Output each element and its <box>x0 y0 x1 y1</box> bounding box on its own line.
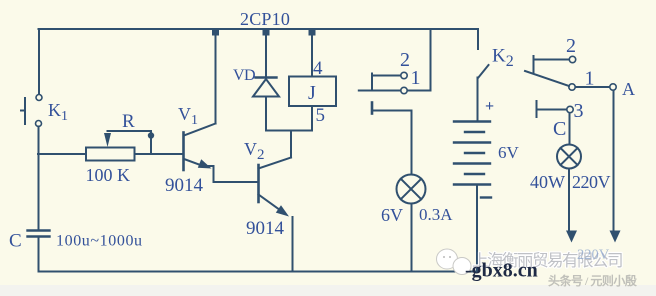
svg-text:-gbx8.cn: -gbx8.cn <box>465 260 538 282</box>
svg-text:5: 5 <box>316 105 326 126</box>
svg-text:6V: 6V <box>381 205 403 225</box>
svg-text:0.3A: 0.3A <box>419 205 453 224</box>
svg-text:2: 2 <box>400 49 410 71</box>
svg-text:9014: 9014 <box>246 218 285 239</box>
svg-text:J: J <box>308 82 316 104</box>
svg-text:A: A <box>622 79 635 99</box>
svg-text:220V: 220V <box>572 172 611 192</box>
svg-text:头条号 / 元则小殷: 头条号 / 元则小殷 <box>548 273 638 288</box>
svg-text:100 K: 100 K <box>86 165 131 185</box>
svg-text:100u~1000u: 100u~1000u <box>56 233 143 250</box>
svg-text:2CP10: 2CP10 <box>240 9 290 29</box>
svg-text:C: C <box>9 231 22 252</box>
svg-text:+: + <box>485 98 494 115</box>
svg-text:1: 1 <box>411 67 421 89</box>
svg-text:9014: 9014 <box>165 175 204 196</box>
svg-text:220V: 220V <box>577 247 610 263</box>
svg-text:40W: 40W <box>530 172 565 192</box>
svg-text:3: 3 <box>574 100 584 122</box>
svg-text:1: 1 <box>585 68 595 90</box>
svg-text:C: C <box>553 118 566 140</box>
svg-text:2: 2 <box>566 35 576 57</box>
svg-text:6V: 6V <box>498 143 520 162</box>
svg-text:VD: VD <box>233 67 255 84</box>
svg-text:R: R <box>122 111 135 132</box>
svg-text:4: 4 <box>313 58 323 79</box>
